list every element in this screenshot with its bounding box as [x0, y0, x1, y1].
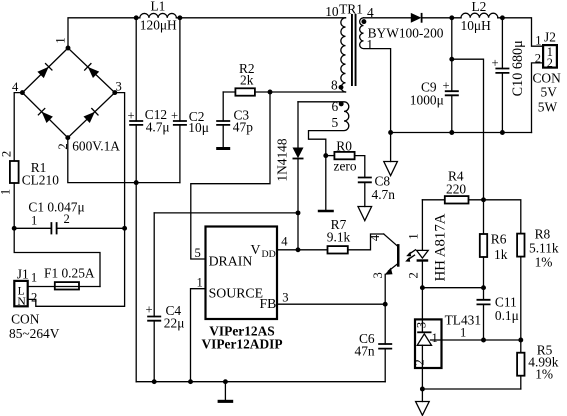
wire R8 bottom to ref row [520, 257, 522, 340]
svg-text:1%: 1% [535, 367, 553, 382]
wire LED cathode to R6 bottom [422, 287, 483, 289]
wire R4 node down to R6 [483, 200, 485, 234]
svg-text:SOURCE: SOURCE [209, 286, 263, 301]
wire primary ground bus [136, 381, 385, 383]
primary winding pin10-pin8 [341, 18, 346, 92]
svg-text:2: 2 [412, 359, 426, 365]
node LED cathode / R6 row [420, 285, 425, 290]
wire drain dogleg to VIPer pin5 [191, 92, 270, 259]
wire VDD pin to R7 [277, 249, 328, 251]
wire bridge pin3 down right side to C1/N [28, 93, 125, 307]
node C11 bottom / ref row [481, 338, 486, 343]
svg-text:V: V [251, 242, 261, 257]
svg-text:3: 3 [116, 80, 122, 94]
ground triangle below TL431 [421, 389, 423, 402]
svg-text:2: 2 [0, 151, 13, 157]
svg-text:4: 4 [12, 80, 19, 94]
svg-text:HH A817A: HH A817A [432, 213, 448, 281]
node SOURCE / bus [188, 379, 193, 384]
svg-text:4.7n: 4.7n [372, 187, 396, 202]
svg-text:8: 8 [331, 77, 338, 92]
svg-text:120μH: 120μH [140, 18, 177, 33]
svg-text:5V: 5V [541, 85, 558, 100]
svg-text:CON: CON [11, 312, 40, 327]
svg-text:10: 10 [325, 4, 339, 19]
inductor L2 10uH [461, 0, 498, 33]
connector J1 CON 85~264V [9, 266, 60, 341]
svg-text:1000μ: 1000μ [410, 93, 444, 108]
svg-text:N: N [17, 295, 26, 308]
svg-text:1k: 1k [494, 247, 508, 262]
wire R0 left to ground bar [325, 156, 327, 210]
svg-text:4: 4 [281, 235, 288, 249]
diode D BYW100-200 [368, 13, 444, 40]
aux winding pin6-pin5 [298, 102, 349, 156]
svg-text:2k: 2k [240, 73, 254, 88]
node C4 / bus [152, 379, 157, 384]
capacitor C12 4.7u [128, 18, 170, 382]
wire J2 pin2 down to output ground bus [532, 63, 544, 133]
svg-text:VIPer12ADIP: VIPer12ADIP [201, 337, 282, 352]
wire bridge pin2 to primary minus rail [68, 138, 180, 183]
resistor R7 9.1k [327, 217, 351, 253]
svg-text:3: 3 [282, 291, 288, 305]
svg-text:1N4148: 1N4148 [275, 138, 290, 181]
capacitor C11 0.1u [477, 288, 519, 340]
svg-text:C1 0.047μ: C1 0.047μ [28, 200, 84, 215]
inductor L1 [140, 0, 177, 33]
wire TL431 ref row [442, 339, 521, 341]
svg-text:CL210: CL210 [22, 172, 60, 187]
IC U1 VIPer12AS [195, 227, 289, 352]
node FB [383, 302, 388, 307]
node C1 left [12, 226, 17, 231]
node dot top rail / C2 column [177, 15, 182, 20]
wire R4 node to R8 top [484, 200, 521, 234]
svg-text:J2: J2 [544, 30, 556, 45]
svg-text:3: 3 [415, 322, 429, 328]
svg-text:10μ: 10μ [188, 120, 209, 135]
svg-text:R0: R0 [336, 138, 352, 153]
capacitor C8 4.7n [355, 156, 396, 207]
resistor R4 220 [422, 169, 483, 204]
svg-text:1: 1 [535, 33, 541, 47]
svg-text:1: 1 [0, 189, 13, 195]
fuse F1 0.25A [44, 266, 95, 290]
wire top rail DC+ from bridge to TR1 primary [68, 18, 346, 48]
node C9 top [449, 15, 454, 20]
svg-text:600V.1A: 600V.1A [72, 139, 120, 154]
svg-text:3: 3 [371, 272, 385, 278]
diode D2 1N4148 [275, 102, 304, 250]
IC U3 TL431 [412, 313, 481, 369]
transformer TR1 [298, 1, 391, 155]
svg-text:2: 2 [547, 56, 553, 70]
ground triangle below C8 [358, 207, 372, 221]
svg-text:TR1: TR1 [339, 1, 363, 16]
node dot top rail / C12 column [134, 15, 139, 20]
svg-text:1: 1 [31, 213, 37, 227]
svg-text:2: 2 [31, 291, 37, 305]
resistor R6 1k [480, 232, 508, 263]
node 1N4148 / C4 row [296, 210, 301, 215]
wire L2 to J2 pin1 [498, 18, 543, 46]
resistor R1 CL210 [0, 151, 59, 195]
svg-text:1: 1 [432, 331, 438, 345]
wire R2 node to TR1 pin8 [270, 91, 346, 93]
svg-text:L2: L2 [472, 0, 487, 14]
ground triangle secondary [384, 162, 398, 176]
wire R6 bottom to node [483, 257, 485, 288]
svg-text:+: + [443, 79, 450, 93]
wire R1 to C1 node and down to F1 loop [14, 183, 100, 287]
svg-text:+: + [171, 108, 178, 122]
svg-text:5W: 5W [538, 100, 558, 115]
svg-text:2: 2 [64, 212, 70, 226]
svg-text:R8: R8 [535, 227, 551, 242]
bridge rectifier 600V.1A [12, 37, 122, 153]
node TL431 ground [420, 387, 425, 392]
node R4 right [481, 197, 486, 202]
wire secondary return to ground [390, 133, 392, 162]
svg-text:1%: 1% [535, 255, 553, 270]
node C9 tap to R4/R8 branch [449, 57, 454, 62]
svg-text:DD: DD [262, 249, 276, 260]
wire C4 row to 1N4148 [154, 212, 298, 214]
resistor R8 5.11k 1% [517, 227, 559, 270]
secondary winding pin4-pin1 [360, 18, 391, 133]
svg-text:0.1μ: 0.1μ [495, 308, 519, 323]
svg-text:85~264V: 85~264V [9, 326, 60, 341]
polarity dots [339, 85, 344, 90]
svg-text:220: 220 [446, 182, 466, 197]
svg-text:C10 680μ: C10 680μ [510, 40, 526, 96]
svg-text:10μH: 10μH [461, 18, 492, 33]
node secondary return [388, 130, 393, 135]
resistor R2 2k [223, 61, 270, 96]
wire output ground row [422, 388, 520, 390]
node R8/R5 junction [518, 338, 523, 343]
capacitor C10 680u [492, 18, 526, 133]
wire bridge pin4 to R1 [14, 93, 22, 161]
svg-text:L1: L1 [151, 0, 166, 13]
svg-text:5.11k: 5.11k [529, 241, 559, 256]
wire SOURCE to ground bus [191, 289, 206, 382]
wire C9 tap to sense branch [452, 59, 484, 200]
svg-text:1: 1 [460, 326, 466, 340]
ground bar below C3 [216, 147, 230, 150]
capacitor C3 47p [216, 92, 253, 147]
node C10 top [500, 15, 505, 20]
core [351, 14, 357, 86]
svg-text:FB: FB [260, 296, 277, 311]
svg-text:4: 4 [368, 234, 382, 241]
svg-text:2: 2 [406, 272, 420, 278]
svg-text:BYW100-200: BYW100-200 [368, 25, 444, 40]
wire FB pin to C6/opto [277, 303, 385, 305]
capacitor C6 47n [355, 304, 393, 382]
svg-text:zero: zero [334, 158, 357, 173]
node R0 left [323, 153, 328, 158]
svg-text:5: 5 [332, 115, 339, 130]
svg-text:+: + [128, 108, 135, 122]
svg-text:+: + [146, 303, 153, 317]
node ground stub / bus [223, 379, 228, 384]
svg-text:F1 0.25A: F1 0.25A [44, 266, 95, 281]
capacitor C2 10u [171, 18, 209, 183]
svg-text:+: + [492, 56, 499, 70]
wire TL431 anode to ground row [421, 368, 423, 389]
svg-text:DRAIN: DRAIN [209, 254, 253, 269]
node 1N4148 / VDD row [296, 247, 301, 252]
resistor R5 4.99k 1% [517, 340, 559, 389]
optocoupler U2 HH A817A phototransistor [368, 234, 400, 304]
wire R7 to opto collector [348, 234, 384, 250]
wire TR1 pin4 to diode [364, 17, 411, 19]
node rail / C12 [134, 180, 139, 185]
svg-text:J1: J1 [17, 266, 29, 281]
optocoupler U2 LED [405, 200, 448, 320]
svg-text:1: 1 [31, 271, 37, 285]
svg-text:1: 1 [197, 276, 203, 290]
svg-text:R6: R6 [491, 232, 507, 247]
capacitor C1 0.047u [14, 200, 124, 235]
node C1 right [122, 226, 127, 231]
wire diode to L2 [422, 17, 461, 19]
svg-text:4.7μ: 4.7μ [146, 120, 170, 135]
svg-text:47p: 47p [233, 120, 253, 135]
resistor R0 zero [326, 138, 357, 173]
wire J1 pin1 to fuse [28, 286, 100, 288]
svg-text:1: 1 [54, 37, 68, 43]
node C10 bottom [500, 130, 505, 135]
connector J2 CON 5V 5W [533, 30, 562, 115]
capacitor C4 22u [146, 213, 185, 382]
capacitor C9 1000u [410, 18, 459, 133]
node R6 bottom / C11 top [481, 285, 486, 290]
svg-text:5: 5 [195, 246, 201, 260]
svg-text:9.1k: 9.1k [327, 230, 351, 245]
node R2/drain [268, 90, 273, 95]
ground bar below R0 [318, 210, 334, 213]
ground bar on bus [224, 382, 226, 400]
svg-text:6: 6 [332, 99, 339, 114]
svg-text:CON: CON [533, 71, 562, 86]
svg-text:1: 1 [406, 233, 420, 239]
svg-text:47n: 47n [355, 343, 375, 358]
wire output ground bus [391, 132, 532, 134]
node C9 bottom [449, 130, 454, 135]
svg-text:22μ: 22μ [164, 315, 185, 330]
